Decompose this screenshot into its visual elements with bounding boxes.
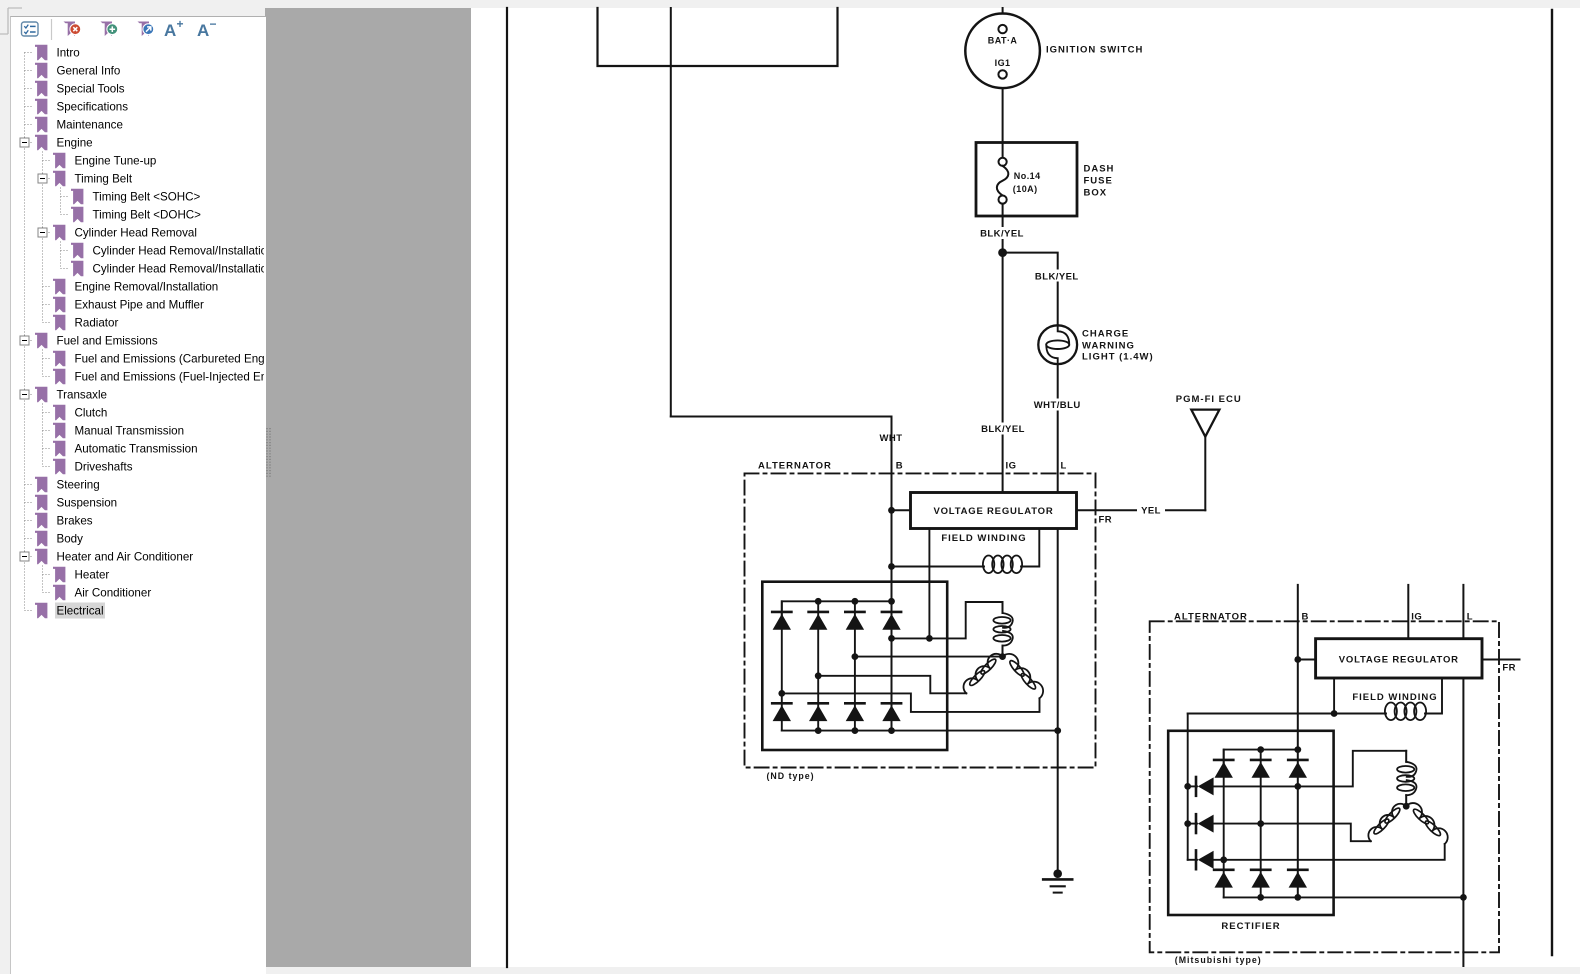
tree bookmark 7 [53,153,65,169]
diode D5 bottom (Mitsubishi) [1251,870,1270,888]
junction bus-L [1054,727,1061,734]
svg-text:RECTIFIER: RECTIFIER [1221,921,1280,932]
junction phase1 [888,635,895,642]
alternator enclosure (ND) [745,473,1096,767]
svg-text:(10A): (10A) [1013,184,1038,194]
tree bookmark 15 [53,297,65,313]
tree bookmark 31 [53,585,65,601]
ignition switch body [965,14,1040,89]
label YEL [1137,503,1165,516]
svg-text:(Mitsubishi type): (Mitsubishi type) [1175,955,1262,965]
tree bookmark 3 [35,81,47,97]
diode D4 bottom (Mitsubishi) [1214,870,1233,888]
diode D6 bottom (ND) [809,703,828,721]
svg-text:WHT/BLU: WHT/BLU [1034,400,1081,411]
label BLK/YEL at IG [981,423,1026,435]
label WHT/BLU [1033,399,1081,411]
tree expander 6 [20,138,29,147]
diode D2 top (Mitsubishi) [1251,760,1270,778]
svg-text:IG: IG [1411,612,1422,623]
voltage regulator (ND) [911,493,1077,529]
diode D5 bottom (ND) [772,703,791,721]
junction bus [1257,894,1264,901]
tree expander 17 [20,336,29,345]
tree expander 8 [38,174,47,183]
junction rail [1184,820,1191,827]
stator coil right (ND) [1003,654,1044,698]
field winding coil (ND) [983,556,1022,574]
voltage regulator (Mitsubishi) [1316,639,1482,678]
wire regulator field lead [1021,529,1039,567]
svg-text:WARNING: WARNING [1082,341,1135,352]
rectifier top bus (Mitsubishi) [1224,750,1298,765]
svg-text:VOLTAGE REGULATOR: VOLTAGE REGULATOR [933,506,1053,517]
stator coil left (Mitsubishi) [1368,804,1406,841]
wire exciter diode stub 1 [1188,785,1197,787]
tree bookmark 6 [35,135,47,151]
diode D8 left (Mitsubishi) [1196,814,1214,833]
rectifier box (ND) [762,582,947,750]
tree bookmark 28 [35,531,47,547]
wire rectifier left rail [1187,714,1189,860]
junction phase3 [1220,856,1227,863]
wire battery feed [1002,8,1004,15]
junction bus [1257,746,1264,753]
stator coil right (Mitsubishi) [1406,803,1448,844]
tree bookmark 17 [35,333,47,349]
stator coil top (ND) [993,602,1012,657]
TREE [0,16,264,974]
rectifier column wires (Mitsubishi) [1223,750,1225,898]
tree expander 11 [38,228,47,237]
wire phase 3 (Mitsubishi) [1214,844,1445,860]
checklist toolbar icon [22,22,39,36]
tree root connector line [24,53,26,611]
svg-text:BLK/YEL: BLK/YEL [1035,271,1079,282]
svg-text:BAT·A: BAT·A [988,36,1018,46]
tree bookmark 19 [53,369,65,385]
diode D4 top (ND) [882,612,901,630]
wire phase 2 to left stator coil [818,676,966,694]
rectifier box (Mitsubishi) [1168,731,1333,915]
tree bookmark 9 [71,189,83,205]
tree bookmark 10 [71,207,83,223]
tree bookmark 13 [71,261,83,277]
dash fuse box [976,143,1077,217]
svg-text:FIELD WINDING: FIELD WINDING [941,533,1026,544]
junction bus-L [1460,894,1467,901]
wire WHT/BLU light to L [1057,364,1059,493]
bookmark-add toolbar icon [101,22,113,37]
junction bus [852,727,859,734]
tree bookmark 11 [53,225,65,241]
tree bookmark 18 [53,351,65,367]
svg-text:CHARGE: CHARGE [1082,329,1129,340]
junction phase2 [815,672,822,679]
tree expander 20 [20,390,29,399]
wire L vertical (Mitsubishi) [1462,585,1464,966]
svg-text:L: L [1467,612,1473,623]
wire FR stub (Mitsubishi) [1482,659,1520,661]
wire field to rectifier [1188,713,1386,715]
junction bus [888,598,895,605]
tree bookmark 23 [53,441,65,457]
rectifier top bus [782,601,892,620]
tree bookmark 27 [35,513,47,529]
rectifier bottom bus (Mitsubishi) [1224,896,1464,898]
stator coil top (Mitsubishi) [1397,751,1416,806]
svg-text:No.14: No.14 [1014,171,1041,181]
fuse No.14 terminal bottom [999,196,1007,204]
wire exciter diode stub 3 [1188,859,1197,861]
tree bookmark 16 [53,315,65,331]
svg-text:(ND type): (ND type) [767,771,815,781]
svg-text:FR: FR [1502,662,1516,673]
stator coil left (ND) [963,654,1002,693]
bookmark-delete toolbar icon [64,22,76,37]
svg-text:ALTERNATOR: ALTERNATOR [1174,612,1248,623]
selected tree row highlight [55,603,105,619]
svg-text:L: L [1061,461,1067,472]
wire regulator FR sense lead [928,529,930,639]
tree bookmark 14 [53,279,65,295]
diode D7 bottom (ND) [845,703,864,721]
wire WHT horizontal [671,416,892,418]
junction bus-B [1294,746,1301,753]
diode D6 bottom (Mitsubishi) [1288,870,1307,888]
diode D3 top (ND) [845,612,864,630]
rectifier column wires [781,601,783,730]
svg-text:BLK/YEL: BLK/YEL [980,229,1024,240]
svg-text:YEL: YEL [1141,506,1161,517]
wire ECU lead [1204,437,1206,511]
tree bookmark 2 [35,63,47,79]
fuse No.14 terminal top [999,158,1007,166]
wire B vertical (Mitsubishi) [1297,585,1299,898]
junction stator centre (Mitsubishi) [1403,803,1410,810]
junction stator centre (ND) [999,653,1006,660]
tree bookmark 32 [35,603,47,619]
tree bookmark 22 [53,423,65,439]
wire phase 2 (Mitsubishi) [1214,824,1371,842]
junction bus [852,598,859,605]
svg-text:VOLTAGE REGULATOR: VOLTAGE REGULATOR [1339,655,1459,666]
junction phase1-B [1294,783,1301,790]
tree bookmark 1 [35,45,47,61]
tree bookmark 25 [35,477,47,493]
svg-text:IG1: IG1 [995,58,1011,68]
tree bookmark 20 [35,387,47,403]
alternator enclosure (Mitsubishi) [1150,621,1499,952]
bookmark-goto toolbar icon [138,22,150,37]
wire phase 3 to right stator coil [782,693,1040,712]
tree bookmark 24 [53,459,65,475]
wire BLK/YEL fuse to IG [1002,204,1004,493]
svg-text:WHT: WHT [880,433,903,444]
wire ignition to fuse [1002,88,1004,158]
terminal BAT-A [998,25,1006,33]
wire regulator field leads (Mitsubishi) [1333,678,1335,714]
junction field-B [888,563,895,570]
charge warning light bulb [1038,325,1077,364]
svg-text:DASH: DASH [1084,163,1115,174]
junction field-regulator [1331,710,1338,717]
tree bookmark 4 [35,99,47,115]
svg-text:BOX: BOX [1084,188,1108,199]
page left edge line [506,8,508,967]
wire phase 1 (Mitsubishi) [1214,751,1406,787]
svg-text:B: B [896,461,903,472]
junction B-regulator (Mitsubishi) [1294,656,1301,663]
PGM-FI ECU connector [1191,410,1219,437]
sidebar panel [10,16,266,974]
junction B-regulator [888,507,895,514]
wire harness vertical [670,8,672,417]
wire branch to warning light [1003,253,1058,326]
left tab chrome marks [0,0,30,120]
tree expander 29 [20,552,29,561]
wire L vertical [1057,493,1059,871]
field winding coil (Mitsubishi) [1385,703,1426,721]
label BLK/YEL lamp branch [1034,270,1080,282]
svg-text:FUSE: FUSE [1084,176,1113,187]
diode D7 left (Mitsubishi) [1196,777,1214,796]
label BLK/YEL below fuse [980,227,1025,239]
junction bus [1294,894,1301,901]
junction bus [815,727,822,734]
diode D8 bottom (ND) [882,703,901,721]
tree bookmark 29 [35,549,47,565]
svg-text:ALTERNATOR: ALTERNATOR [758,461,832,472]
svg-text:IG: IG [1006,461,1017,472]
tree bookmark 12 [71,243,83,259]
svg-text:FR: FR [1099,515,1113,526]
TOOLBAR [10,16,265,46]
tree bookmark 8 [53,171,65,187]
junction phase3 [778,690,785,697]
bulb filament [1046,325,1069,364]
junction regulator sense tap [926,635,933,642]
wire YEL (FR) [1077,509,1206,511]
svg-text:FIELD WINDING: FIELD WINDING [1352,692,1437,703]
wire IG vertical (Mitsubishi) [1407,585,1409,639]
page right edge line [1551,10,1553,955]
tree bookmark 5 [35,117,47,133]
wire phase 1 to top stator coil [892,602,1003,638]
svg-text:B: B [1302,612,1309,623]
junction BLK/YEL [999,249,1006,256]
wire phase N to stator centre [855,656,1003,658]
junction rail [1184,783,1191,790]
splitter handle dots [265,426,273,480]
junction bus [815,598,822,605]
wire exciter diode stub 2 [1188,823,1197,825]
diode D3 top (Mitsubishi) [1288,760,1307,778]
tree bookmark 30 [53,567,65,583]
wire B to regulator (Mitsubishi) [1298,659,1316,661]
terminal IG1 [998,70,1006,78]
svg-text:PGM-FI ECU: PGM-FI ECU [1176,394,1242,405]
fuse No.14 element [997,166,1009,196]
diode D9 left (Mitsubishi) [1196,850,1214,869]
ground [1043,869,1072,892]
toolbar separator [51,19,53,40]
junction bus [888,727,895,734]
junction phase2 [1257,820,1264,827]
document page white [471,8,1580,967]
tree bookmark 21 [53,405,65,421]
svg-text:LIGHT (1.4W): LIGHT (1.4W) [1082,352,1154,363]
diode D1 top (Mitsubishi) [1214,760,1233,778]
tree bookmark 26 [35,495,47,511]
junction phaseN [852,653,859,660]
svg-text:IGNITION SWITCH: IGNITION SWITCH [1046,44,1143,55]
diode D1 top (ND) [772,612,791,630]
harness box [598,8,838,66]
rectifier bottom bus [782,730,1058,732]
wire B to regulator [892,509,911,511]
wire B vertical (WHT) [891,417,893,731]
svg-text:BLK/YEL: BLK/YEL [981,424,1025,435]
wire field to B [892,566,985,568]
diode D2 top (ND) [809,612,828,630]
